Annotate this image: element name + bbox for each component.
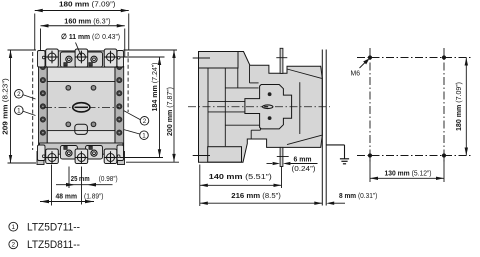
svg-text:209 mm (8.23”): 209 mm (8.23”) <box>0 78 9 135</box>
svg-text:180 mm (7.09”): 180 mm (7.09”) <box>59 0 116 9</box>
svg-text:8 mm (0.31”): 8 mm (0.31”) <box>339 191 378 200</box>
svg-text:6 mm: 6 mm <box>294 154 312 163</box>
svg-text:(0.98”): (0.98”) <box>99 174 118 183</box>
svg-text:∅ 11 mm (∅ 0.43”): ∅ 11 mm (∅ 0.43”) <box>61 32 120 41</box>
svg-text:180 mm (7.09”): 180 mm (7.09”) <box>454 82 463 131</box>
svg-text:LTZ5D711--: LTZ5D711-- <box>27 222 80 234</box>
svg-text:130 mm (5.12”): 130 mm (5.12”) <box>385 169 432 178</box>
svg-text:25 mm: 25 mm <box>71 174 90 183</box>
svg-text:1: 1 <box>12 224 16 231</box>
svg-text:(1.89”): (1.89”) <box>84 191 104 200</box>
svg-text:48 mm: 48 mm <box>56 191 78 200</box>
svg-text:LTZ5D811--: LTZ5D811-- <box>27 239 80 251</box>
svg-text:160 mm (6.3”): 160 mm (6.3”) <box>64 17 111 26</box>
svg-text:M6: M6 <box>351 68 361 77</box>
svg-text:184 mm (7.24”): 184 mm (7.24”) <box>150 62 159 111</box>
svg-text:200 mm (7.87”): 200 mm (7.87”) <box>165 87 174 136</box>
svg-text:1: 1 <box>142 132 146 139</box>
svg-text:1: 1 <box>17 107 21 114</box>
svg-text:2: 2 <box>17 91 21 98</box>
svg-text:216 mm (8.5”): 216 mm (8.5”) <box>231 191 281 200</box>
svg-text:140 mm (5.51”): 140 mm (5.51”) <box>209 172 273 181</box>
svg-text:(0.24”): (0.24”) <box>292 164 316 173</box>
svg-text:2: 2 <box>12 242 16 249</box>
svg-text:2: 2 <box>143 118 147 125</box>
